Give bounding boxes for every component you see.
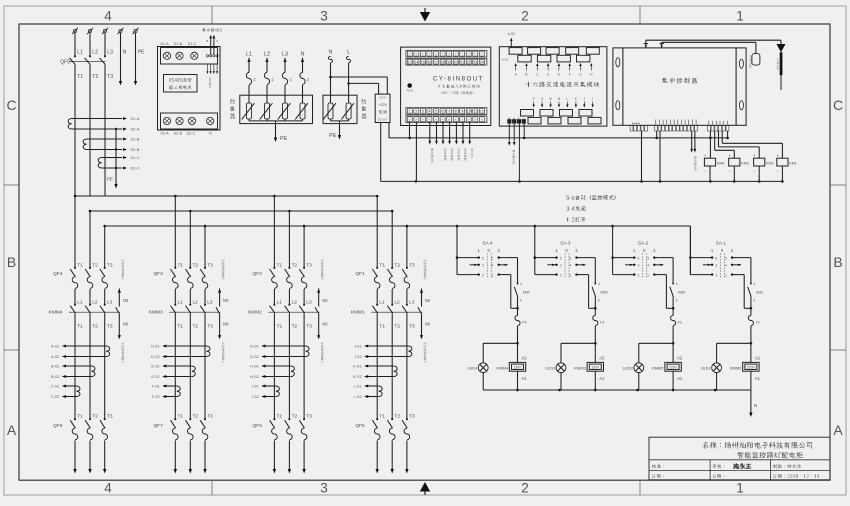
svg-text:T1: T1 [178, 324, 184, 330]
wire QF4 pole [89, 211, 91, 268]
svg-text:L-S1: L-S1 [354, 385, 362, 389]
CT lead K-S1 [365, 365, 394, 367]
svg-text:A-S2: A-S2 [51, 355, 59, 359]
wires: strip B [656, 131, 658, 138]
central controller 集中控制器 [613, 48, 746, 125]
svg-text:F: F [569, 73, 571, 77]
svg-text:N0: N0 [425, 322, 431, 327]
svg-text:4: 4 [104, 9, 112, 24]
svg-text:I-S2: I-S2 [252, 395, 259, 399]
svg-text:KMM4: KMM4 [49, 310, 63, 316]
svg-text:KM3: KM3 [741, 161, 748, 165]
wire N with arrow [120, 33, 122, 81]
svg-text:B-S1: B-S1 [51, 365, 59, 369]
svg-text:LED3: LED3 [545, 366, 556, 371]
svg-text:N0: N0 [322, 298, 328, 303]
CT lead I-S1 [262, 385, 276, 387]
svg-text:L3: L3 [207, 300, 213, 306]
svg-text:F: F [307, 78, 310, 83]
svg-text:1: 1 [725, 274, 727, 278]
svg-text:L2: L2 [92, 50, 98, 56]
svg-text:I-S1: I-S1 [252, 385, 259, 389]
svg-text:×: × [468, 52, 470, 56]
svg-text:2: 2 [521, 9, 529, 24]
svg-text:L1: L1 [178, 300, 184, 306]
svg-text:LED1: LED1 [701, 366, 712, 371]
svg-text:F-S1: F-S1 [152, 385, 160, 389]
supply outputs to rails [380, 123, 382, 182]
CT lead F-S2 [163, 396, 177, 398]
svg-text:A-S1: A-S1 [502, 58, 509, 62]
contact KM3 [594, 258, 596, 283]
svg-text:QF7: QF7 [153, 423, 163, 429]
svg-text:×: × [422, 52, 424, 56]
svg-text:T2: T2 [92, 324, 98, 330]
svg-text:6: 6 [638, 257, 640, 261]
svg-text:21: 21 [460, 60, 464, 64]
svg-text:T3: T3 [207, 414, 213, 420]
svg-text:4: 4 [598, 282, 600, 286]
svg-text:PE: PE [329, 133, 337, 139]
svg-text:B: B [833, 254, 842, 270]
svg-text:×: × [429, 52, 431, 56]
coil return rail to N [483, 389, 751, 391]
svg-text:KM1: KM1 [756, 291, 763, 295]
wires: strip A to GND rail [641, 131, 643, 181]
svg-text:L2: L2 [193, 300, 199, 306]
svg-text:S2-A: S2-A [160, 132, 169, 136]
PE collector of CT secondaries [115, 128, 117, 130]
surge arrester 2 (N L) [323, 95, 357, 123]
svg-text:T2: T2 [292, 324, 298, 330]
wire L3 [104, 33, 106, 57]
aux contact N0 of KMM4 [118, 289, 121, 293]
svg-text:6: 6 [715, 257, 717, 261]
CT lead F-S1 [163, 385, 177, 387]
svg-text:F4: F4 [523, 321, 527, 325]
svg-text:16: 16 [427, 60, 431, 64]
svg-text:T2: T2 [92, 262, 98, 268]
CT lead H-S1 [262, 365, 291, 367]
svg-text:QF2: QF2 [253, 271, 263, 277]
svg-text:I: I [592, 97, 593, 101]
svg-text:T1: T1 [178, 262, 184, 268]
svg-text:18: 18 [441, 60, 445, 64]
relay KM4 [704, 158, 715, 166]
svg-text:L2: L2 [394, 300, 400, 306]
phase bus A [75, 195, 377, 197]
svg-text:×: × [481, 118, 483, 122]
svg-text:N0: N0 [123, 298, 129, 303]
mode notes [566, 195, 615, 200]
svg-text:A-S1: A-S1 [51, 345, 59, 349]
selector switch SA-2 [612, 226, 614, 275]
svg-text:H-S2: H-S2 [250, 375, 259, 379]
svg-text:19: 19 [447, 60, 451, 64]
svg-text:A: A [833, 422, 843, 438]
svg-text:4: 4 [104, 481, 112, 496]
svg-text:E-S2: E-S2 [151, 375, 159, 379]
svg-text:485B: 485B [507, 117, 511, 123]
CT lead J-S2 [365, 356, 409, 358]
svg-text:5: 5 [435, 110, 437, 114]
svg-text:N: N [301, 52, 305, 58]
svg-text:2: 2 [482, 274, 484, 278]
svg-text:15: 15 [421, 60, 425, 64]
svg-text:S2-B: S2-B [174, 132, 183, 136]
svg-text:T2: T2 [394, 324, 400, 330]
svg-text:AC IN: AC IN [379, 97, 386, 100]
wire QF3 pole [204, 226, 206, 268]
svg-text:2: 2 [638, 274, 640, 278]
svg-text:D-S1: D-S1 [151, 345, 160, 349]
svg-text:T1: T1 [379, 414, 385, 420]
svg-text:A2: A2 [522, 356, 528, 361]
+12V rail [389, 137, 728, 139]
CT lead A-S1 [63, 345, 106, 347]
fuse F3 [594, 308, 596, 315]
phase bus C / control bus [105, 225, 690, 227]
CT lead B-S1 [63, 365, 92, 367]
svg-text:L: L [347, 50, 350, 56]
wire QF1 pole [376, 196, 378, 268]
RS485 three-phase meter [158, 47, 221, 131]
surge arrester 1 (L1 L2 L3 N) [240, 95, 313, 123]
relay KM1 [777, 158, 788, 166]
svg-text:F: F [272, 78, 275, 83]
svg-text:F: F [254, 78, 257, 83]
svg-text:QF3: QF3 [153, 271, 163, 277]
svg-text:N: N [209, 132, 212, 136]
svg-text:N0: N0 [223, 298, 229, 303]
CT lead C-S1 [63, 385, 77, 387]
svg-text:A2: A2 [755, 356, 761, 361]
svg-text:T1: T1 [277, 414, 283, 420]
svg-text:P: P [533, 97, 535, 101]
center mark bottom [420, 482, 430, 492]
svg-text:T3: T3 [107, 262, 113, 268]
svg-text:KMM2: KMM2 [652, 365, 664, 370]
RUN LED [407, 83, 412, 88]
svg-text:J-S1: J-S1 [354, 345, 362, 349]
svg-text:T3: T3 [107, 324, 113, 330]
svg-text:LED2: LED2 [623, 366, 634, 371]
svg-text:N: N [329, 50, 333, 56]
svg-text:4: 4 [569, 264, 571, 268]
svg-text:×: × [455, 118, 457, 122]
coil KMM2 220V [672, 343, 674, 362]
svg-text:×: × [448, 118, 450, 122]
fuse F1 [750, 308, 752, 315]
svg-text:6: 6 [598, 299, 600, 303]
svg-text:1: 1 [736, 9, 744, 24]
svg-text:L1: L1 [77, 50, 83, 56]
svg-text:×: × [442, 52, 444, 56]
svg-text:23: 23 [473, 60, 477, 64]
svg-text:QF8: QF8 [53, 423, 63, 429]
svg-text:5: 5 [647, 257, 649, 261]
aux contact N0 of KMM3 [218, 289, 221, 293]
wire PE with arrow [135, 33, 137, 81]
svg-text:F3: F3 [600, 321, 604, 325]
CT lead E-S2 [163, 376, 192, 378]
aux contact N0 of KMM2 [317, 289, 320, 293]
svg-text:×: × [474, 118, 476, 122]
svg-text:11: 11 [473, 110, 477, 114]
svg-text:N0: N0 [223, 322, 229, 327]
svg-text:220V: 220V [592, 366, 600, 370]
svg-text:3: 3 [320, 481, 328, 496]
+12V power supply [375, 94, 390, 122]
svg-text:T2: T2 [193, 324, 199, 330]
svg-text:QF4: QF4 [53, 271, 63, 277]
fuse F4 [517, 308, 519, 315]
svg-text:1: 1 [409, 110, 411, 114]
svg-text:8: 8 [455, 110, 457, 114]
GPRS antenna [752, 54, 760, 66]
svg-text:3: 3 [320, 9, 328, 24]
svg-text:L: L [567, 97, 569, 101]
indicator lamp LED4 [483, 342, 517, 344]
svg-text:F2: F2 [678, 321, 682, 325]
CT lead E-S1 [163, 365, 192, 367]
svg-text:20: 20 [454, 60, 458, 64]
svg-text:3: 3 [422, 110, 424, 114]
center mark top [420, 12, 430, 22]
svg-text:10: 10 [467, 110, 471, 114]
svg-text:G-S1: G-S1 [250, 345, 259, 349]
svg-text:220V: 220V [669, 366, 677, 370]
svg-text:T3: T3 [207, 262, 213, 268]
selector switch SA-3 [534, 226, 536, 275]
svg-text:T2: T2 [394, 262, 400, 268]
GND/DC- rail [381, 180, 783, 182]
svg-text:QF6: QF6 [253, 423, 263, 429]
comm terminals 485B 485A GND AC12 [507, 119, 511, 123]
svg-text:C-S1: C-S1 [51, 385, 60, 389]
svg-text:KMM2: KMM2 [248, 310, 262, 316]
16-channel AC current acquisition module [499, 47, 607, 126]
svg-text:×: × [455, 52, 457, 56]
svg-text:DC OUT: DC OUT [378, 119, 388, 122]
svg-text:T1: T1 [77, 74, 83, 80]
coil KMM2 220V [750, 343, 752, 362]
selector switch SA-1 [689, 226, 691, 275]
svg-text:KMM3: KMM3 [574, 365, 586, 370]
CT lead L-S2 [365, 396, 379, 398]
svg-text:GND: GND [517, 117, 521, 123]
svg-text:PE: PE [107, 177, 113, 182]
svg-text:KM4: KM4 [717, 161, 724, 165]
svg-text:L1: L1 [277, 300, 283, 306]
A-S2 top lead [510, 41, 512, 48]
svg-text:T2: T2 [193, 262, 199, 268]
svg-text:T1: T1 [77, 414, 83, 420]
svg-text:17: 17 [434, 60, 438, 64]
svg-text:4: 4 [647, 264, 649, 268]
svg-text:KMM4: KMM4 [496, 365, 508, 370]
svg-text:S1-B: S1-B [131, 137, 140, 142]
svg-text:S1-A: S1-A [131, 116, 140, 121]
svg-text:A-S2: A-S2 [508, 32, 516, 36]
svg-text:AC12+: AC12+ [522, 117, 526, 125]
svg-text:KM1: KM1 [789, 161, 796, 165]
svg-text:QF0: QF0 [60, 60, 70, 66]
wires N,L to 12V supply [329, 76, 332, 79]
svg-text:T3: T3 [306, 262, 312, 268]
svg-text:RUN: RUN [407, 89, 413, 93]
CT lead G-S1 [262, 345, 306, 347]
svg-text:×: × [448, 52, 450, 56]
svg-text:N0: N0 [425, 298, 431, 303]
svg-text:KM3: KM3 [601, 291, 608, 295]
svg-text:×: × [468, 118, 470, 122]
svg-text:3: 3 [638, 264, 640, 268]
SA-1 feed corner [689, 226, 691, 275]
CT lead L-S1 [365, 385, 379, 387]
wire QF2 pole [273, 196, 275, 268]
svg-text:L-S2: L-S2 [354, 395, 362, 399]
svg-text:6: 6 [560, 257, 562, 261]
svg-text:N: N [123, 50, 127, 56]
controller bottom terminal strips [630, 125, 633, 131]
PE of surge 2 [339, 121, 341, 135]
svg-text:S1-C: S1-C [188, 42, 197, 46]
wire QF3 pole [174, 196, 176, 268]
controller module CY-8IN8OUT [401, 47, 491, 125]
svg-text:5: 5 [492, 257, 494, 261]
wire QF3 pole [189, 211, 191, 268]
svg-text:QF1: QF1 [355, 271, 365, 277]
indicator lamp LED3 [561, 342, 595, 344]
wire L2 [89, 33, 91, 57]
svg-text:6: 6 [754, 299, 756, 303]
svg-text:A1: A1 [599, 376, 605, 381]
svg-text:6: 6 [482, 257, 484, 261]
fuse F2 [672, 308, 674, 315]
wire L1 [74, 33, 76, 57]
svg-text:×: × [409, 52, 411, 56]
svg-text:KMM2: KMM2 [730, 365, 742, 370]
svg-text:9: 9 [461, 110, 463, 114]
wire QF2 pole [303, 226, 305, 268]
svg-text:T1: T1 [379, 262, 385, 268]
svg-text:T3: T3 [107, 74, 113, 80]
svg-text:T3: T3 [306, 324, 312, 330]
svg-text:N0: N0 [322, 322, 328, 327]
svg-text:T2: T2 [92, 74, 98, 80]
CY module wiring below [409, 122, 411, 138]
svg-text:6: 6 [520, 299, 522, 303]
aux contact N0 of KMM1 [420, 289, 423, 293]
svg-text:L3: L3 [107, 50, 113, 56]
svg-text:1: 1 [647, 274, 649, 278]
svg-text:F1: F1 [756, 321, 760, 325]
svg-text:A1: A1 [522, 376, 528, 381]
svg-text:F-S2: F-S2 [152, 395, 160, 399]
svg-text:T1: T1 [77, 262, 83, 268]
svg-text:SA-2: SA-2 [638, 241, 649, 246]
svg-text:L3: L3 [107, 300, 113, 306]
svg-text:4: 4 [520, 282, 522, 286]
svg-text:KM2: KM2 [766, 161, 773, 165]
CT lead B-S2 [63, 376, 92, 378]
wire QF1 pole [406, 226, 408, 268]
svg-text:2: 2 [715, 274, 717, 278]
wire QF1 pole [391, 211, 393, 268]
svg-text:C-S2: C-S2 [51, 395, 60, 399]
CT lead J-S1 [365, 345, 409, 347]
svg-text:T3: T3 [107, 414, 113, 420]
contact KM4 [517, 258, 519, 283]
svg-text:×: × [435, 52, 437, 56]
svg-text:485A: 485A [512, 117, 516, 123]
CT lead I-S2 [262, 396, 276, 398]
svg-text:L3: L3 [409, 300, 415, 306]
svg-text:220V: 220V [747, 366, 755, 370]
svg-text:14: 14 [414, 60, 418, 64]
indicator lamp LED1 [717, 342, 751, 344]
CT lead H-S2 [262, 376, 291, 378]
svg-text:1: 1 [736, 481, 744, 496]
svg-text:4: 4 [676, 282, 678, 286]
svg-text:M: M [558, 97, 561, 101]
CT lead G-S2 [262, 356, 306, 358]
svg-text:T3: T3 [207, 324, 213, 330]
svg-text:3: 3 [560, 264, 562, 268]
svg-text:S1-B: S1-B [174, 42, 183, 46]
svg-text:G-S2: G-S2 [250, 355, 259, 359]
svg-text:B: B [7, 254, 16, 270]
svg-text:S2-C: S2-C [131, 166, 140, 171]
svg-text:A1: A1 [677, 376, 683, 381]
svg-text:T2: T2 [193, 414, 199, 420]
svg-text:J-S2: J-S2 [354, 355, 362, 359]
wires: strip C to KM relays [709, 131, 711, 158]
svg-text:6: 6 [676, 299, 678, 303]
svg-text:1: 1 [492, 274, 494, 278]
svg-text:K-S2: K-S2 [353, 375, 361, 379]
CT lead K-S2 [365, 376, 394, 378]
svg-text:S2-B: S2-B [131, 147, 140, 152]
GSM antenna [777, 44, 786, 52]
svg-text:L1: L1 [246, 52, 252, 58]
PE of surge 1 [275, 121, 277, 138]
svg-text:A2: A2 [677, 356, 683, 361]
svg-text:L2: L2 [292, 300, 298, 306]
svg-text:×: × [422, 118, 424, 122]
input terminals L1 L2 L3 N PE [73, 29, 76, 32]
svg-text:A: A [216, 39, 218, 43]
svg-text:T2: T2 [292, 262, 298, 268]
svg-text:5: 5 [569, 257, 571, 261]
title block [649, 437, 830, 480]
svg-text:KM4: KM4 [523, 291, 530, 295]
svg-text:S1-A: S1-A [160, 42, 169, 46]
svg-text:×: × [435, 118, 437, 122]
svg-text:PE: PE [138, 50, 145, 56]
svg-text:1: 1 [569, 274, 571, 278]
svg-text:S2-C: S2-C [187, 132, 196, 136]
svg-text:KM2: KM2 [678, 291, 685, 295]
wire QF4 pole [74, 196, 76, 268]
svg-text:22: 22 [467, 60, 471, 64]
svg-text:B-S2: B-S2 [51, 375, 59, 379]
wire QF4 pole [104, 226, 106, 268]
antenna connections [645, 44, 647, 48]
svg-text:L2: L2 [92, 300, 98, 306]
svg-text:×: × [409, 118, 411, 122]
